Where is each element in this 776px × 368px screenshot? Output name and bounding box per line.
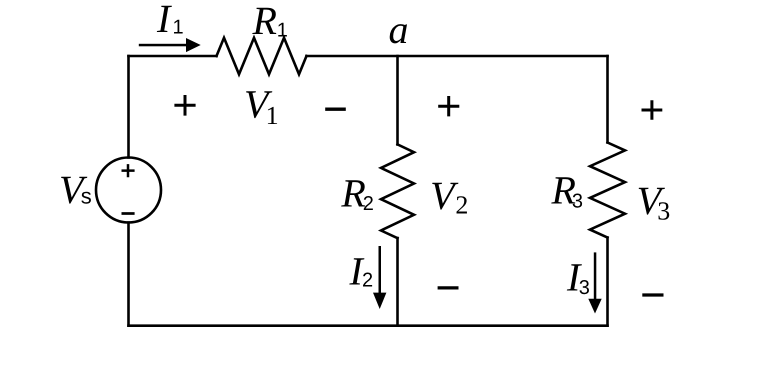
wire right vertical upper xyxy=(606,56,609,143)
wire top horizontal R1 to right corner xyxy=(307,55,608,58)
resistor R2 xyxy=(381,144,414,238)
svg-text:1: 1 xyxy=(266,101,279,130)
minus sign of V1 xyxy=(325,108,346,111)
wire right vertical lower xyxy=(606,238,609,326)
svg-text:2: 2 xyxy=(363,193,374,215)
minus sign inside source xyxy=(122,212,135,215)
svg-text:s: s xyxy=(81,184,92,209)
wire left-vertical top (source to top-left corner) xyxy=(127,56,130,158)
plus sign of V2 xyxy=(438,96,459,116)
svg-text:2: 2 xyxy=(362,270,373,292)
svg-text:1: 1 xyxy=(173,17,184,39)
plus sign of V3 xyxy=(642,100,663,119)
svg-text:I: I xyxy=(156,0,172,41)
minus sign of V3 xyxy=(642,293,663,296)
svg-text:3: 3 xyxy=(657,197,670,226)
plus sign of V1 xyxy=(174,95,195,116)
wire left vertical lower (source to bottom-left corner) xyxy=(127,223,130,326)
wire bottom horizontal xyxy=(129,324,608,327)
svg-text:R: R xyxy=(252,0,277,43)
plus sign inside source xyxy=(122,164,135,177)
wire middle vertical upper (node a to R2) xyxy=(396,56,399,144)
current arrow I2 xyxy=(373,246,386,309)
svg-text:2: 2 xyxy=(455,191,468,220)
minus sign of V2 xyxy=(438,286,459,289)
voltage source Vs circle xyxy=(96,158,161,223)
resistor R3 xyxy=(590,143,625,238)
svg-text:3: 3 xyxy=(579,277,590,299)
current arrow I1 xyxy=(139,38,201,52)
svg-text:3: 3 xyxy=(572,191,583,213)
svg-text:a: a xyxy=(389,7,409,52)
resistor R1 xyxy=(217,38,307,75)
wire top-left horizontal to R1 xyxy=(129,55,217,58)
current arrow I3 xyxy=(588,252,601,313)
svg-text:1: 1 xyxy=(277,20,288,42)
wire middle vertical lower (R2 to bottom wire) xyxy=(396,238,399,326)
